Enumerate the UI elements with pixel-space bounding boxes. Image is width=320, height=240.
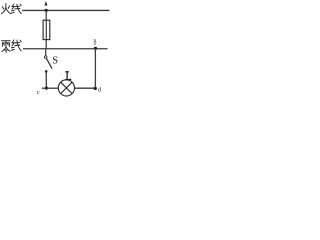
svg-text:B: B — [93, 39, 96, 47]
node d dot — [94, 87, 97, 90]
label L — [65, 72, 70, 80]
wire: live (top horizontal) — [22, 9, 109, 11]
label L subscript dot — [70, 78, 72, 80]
label 火线 (live wire) — [1, 4, 21, 14]
wire: node c stub to junction — [42, 87, 47, 89]
switch S: blade — [47, 59, 53, 69]
svg-text:c: c — [37, 89, 40, 96]
wire: junction to lamp — [46, 87, 58, 89]
wire: node A down to fuse — [45, 10, 47, 20]
label A — [44, 1, 47, 6]
wire: fuse to neutral line — [45, 40, 47, 49]
junction dot (bottom of switch wire) — [45, 87, 48, 90]
switch S: top terminal circle — [44, 56, 47, 59]
fuse (rectangle with wire through) — [43, 20, 50, 39]
wire: switch down to bottom wire — [45, 71, 47, 88]
svg-text:S: S — [52, 55, 58, 66]
switch S: bottom terminal dot — [45, 70, 48, 73]
label 零线 (neutral wire) — [2, 40, 22, 53]
node A junction dot — [45, 9, 48, 12]
lamp L (circle with X) — [58, 80, 74, 96]
wire: neutral horizontal — [23, 48, 108, 50]
switch S: stub from neutral line — [45, 49, 47, 56]
wire: B down to d — [94, 48, 96, 88]
wire: lamp to node d — [75, 87, 96, 89]
node B dot — [94, 47, 97, 50]
